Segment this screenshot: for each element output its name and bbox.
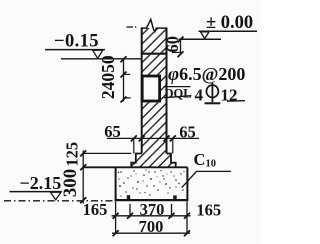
svg-text:4: 4 [195, 86, 204, 105]
svg-text:φ6.5@200: φ6.5@200 [168, 64, 245, 85]
small square mark right in footing [173, 195, 177, 199]
svg-text:125: 125 [63, 142, 82, 167]
level symbol +-0.00 [179, 13, 258, 39]
wall right edge [166, 28, 168, 154]
bottom dimension row 165 370 165 [83, 200, 221, 234]
level symbol -2.15 [10, 173, 62, 200]
svg-text:165: 165 [83, 200, 108, 219]
small square mark left in footing [127, 195, 130, 199]
svg-text:65: 65 [179, 123, 196, 142]
wall hatched body (brick wall section) [131, 28, 175, 167]
svg-text:700: 700 [139, 217, 164, 236]
rebar label 4 phi 12 [195, 83, 246, 105]
svg-text:−2.15: −2.15 [20, 173, 62, 193]
-0.15 level line to wall [61, 58, 142, 60]
svg-text:24050: 24050 [98, 55, 118, 99]
step 1 outline (right) [167, 154, 176, 168]
-2.15 dash-dot level line [4, 200, 114, 202]
bottom dimension row 700 [112, 217, 190, 236]
concrete footing outline C10 [83, 167, 188, 200]
step 1 outline (left) [131, 154, 141, 168]
svg-text:165: 165 [196, 200, 221, 219]
axis dash-dot left of wall top [127, 26, 134, 28]
wall joint line at -0.15 floor [141, 53, 168, 55]
svg-text:± 0.00: ± 0.00 [206, 13, 253, 33]
wall left edge [141, 28, 143, 154]
C10 label with leader [182, 150, 231, 188]
DQL beam rectangle (white with thick border) [142, 76, 159, 101]
svg-text:60: 60 [163, 36, 182, 53]
DQL label with leader [164, 86, 192, 100]
vertical dimension 125 and 300 (left of footing) [60, 142, 131, 204]
svg-text:10: 10 [206, 159, 217, 170]
footing stipple texture [118, 169, 185, 196]
vertical dimension 240 and 50 (left of wall) [98, 55, 131, 102]
svg-text:DQL: DQL [165, 86, 192, 100]
svg-text:C: C [194, 150, 206, 169]
svg-text:12: 12 [221, 86, 238, 105]
dimension 60 (right of wall top) [163, 36, 184, 57]
svg-text:65: 65 [104, 122, 121, 141]
svg-text:−0.15: −0.15 [54, 31, 99, 51]
wall top break line [141, 20, 168, 32]
horizontal dimension 65 / 65 row [104, 122, 199, 154]
level symbol -0.15 [45, 31, 105, 58]
svg-text:300: 300 [60, 169, 81, 198]
